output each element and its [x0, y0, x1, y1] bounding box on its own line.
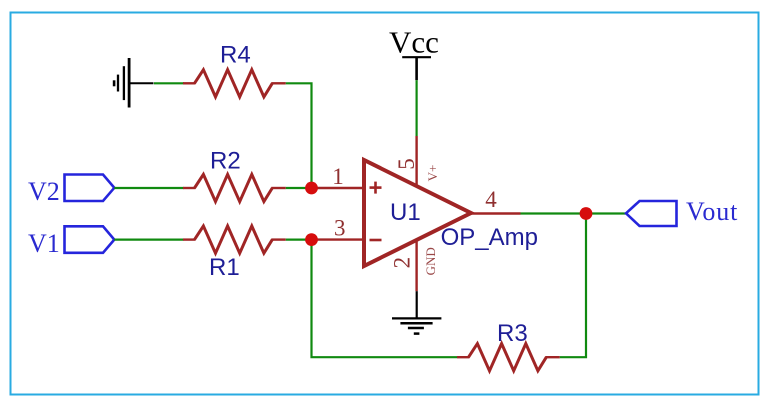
svg-text:Vcc: Vcc — [389, 25, 439, 60]
svg-text:5: 5 — [394, 158, 419, 170]
pin 1 stub — [312, 187, 365, 189]
pin 2 stub — [415, 240, 417, 291]
svg-text:R1: R1 — [209, 254, 240, 281]
svg-text:GND: GND — [423, 247, 438, 275]
resistor R3 — [457, 356, 470, 358]
port V2 — [65, 175, 115, 202]
plus marker — [370, 182, 382, 194]
minus marker — [370, 239, 382, 242]
wire — [114, 239, 183, 241]
pin 4 stub — [471, 212, 521, 214]
junction node at pin 1 — [305, 182, 318, 195]
pin 5 stub — [415, 136, 417, 187]
junction node at output — [580, 207, 593, 220]
svg-text:V2: V2 — [28, 177, 60, 206]
svg-text:V+: V+ — [425, 165, 440, 182]
port Vout — [626, 201, 677, 226]
wire — [286, 239, 312, 241]
wire pin4 to output node to port — [521, 212, 626, 214]
svg-text:OP_Amp: OP_Amp — [441, 224, 538, 251]
wire — [114, 187, 183, 189]
svg-text:R2: R2 — [210, 148, 241, 175]
wire (feedback left vertical + bottom) — [312, 240, 458, 358]
pin 3 stub — [312, 238, 365, 240]
svg-text:Vout: Vout — [686, 197, 738, 226]
svg-text:1: 1 — [332, 164, 344, 189]
op-amp U1 triangle — [364, 160, 471, 266]
svg-text:4: 4 — [485, 187, 497, 212]
svg-text:2: 2 — [389, 257, 414, 269]
port V1 — [65, 226, 115, 253]
resistor R4 — [183, 82, 196, 84]
svg-text:R4: R4 — [220, 42, 251, 69]
ground (top-left, sideways) — [114, 58, 153, 108]
svg-text:U1: U1 — [390, 199, 421, 226]
svg-text:3: 3 — [334, 216, 346, 241]
wire — [154, 82, 184, 84]
resistor R1 — [183, 238, 196, 240]
ground (bottom, below pin 2) — [392, 291, 441, 333]
resistor R2 — [183, 187, 196, 189]
wire — [286, 83, 312, 188]
svg-text:R3: R3 — [497, 320, 528, 347]
junction node at pin 3 — [305, 233, 318, 246]
wire — [286, 187, 312, 189]
svg-text:V1: V1 — [28, 229, 60, 258]
wire (right vertical up to output node) — [560, 214, 586, 358]
wire — [416, 80, 418, 136]
